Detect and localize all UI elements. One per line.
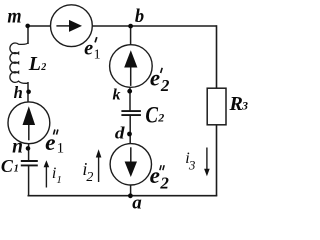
wire left: e''1 to C1: [28, 144, 30, 161]
node m: [25, 24, 30, 29]
svg-text:L: L: [28, 53, 41, 75]
svg-text:h: h: [14, 83, 23, 102]
source e'1: [51, 5, 93, 47]
source e''2: [110, 144, 151, 185]
svg-text:b: b: [135, 7, 144, 27]
svg-text:d: d: [115, 124, 125, 143]
svg-text:2: 2: [157, 111, 164, 125]
svg-text:R: R: [229, 93, 243, 115]
resistor R3: [207, 88, 226, 125]
wire left: m down to coil: [27, 25, 29, 44]
wire mid: C2 to e''2: [129, 116, 131, 145]
svg-text:m: m: [7, 4, 21, 28]
svg-text:a: a: [132, 193, 142, 212]
node k: [127, 89, 132, 94]
node d: [127, 132, 132, 137]
wire mid: b down to e'2: [130, 26, 132, 45]
svg-text:k: k: [113, 86, 121, 103]
wire left: C1 to bottom: [28, 166, 30, 196]
svg-text:2: 2: [160, 76, 170, 95]
svg-text:1: 1: [56, 174, 62, 186]
wire mid: e'2 to C2: [129, 87, 131, 110]
svg-text:2: 2: [159, 173, 169, 192]
current i2 arrow: [98, 157, 100, 183]
svg-text:3: 3: [241, 99, 248, 113]
wire bottom: [28, 195, 218, 197]
capacitor C2: [121, 110, 140, 112]
svg-text:n: n: [12, 136, 23, 157]
svg-text:e: e: [150, 66, 160, 91]
wire mid: e''2 to a: [130, 185, 132, 196]
wire left: coil to e''1: [27, 82, 29, 103]
svg-text:e: e: [150, 163, 160, 188]
current i3 arrow: [206, 148, 208, 170]
node n: [26, 146, 31, 151]
source e''1: [8, 102, 50, 144]
svg-text:2: 2: [86, 170, 93, 185]
source e'2: [110, 45, 153, 88]
svg-text:1: 1: [14, 164, 19, 175]
svg-text:C: C: [1, 156, 14, 176]
svg-text:1: 1: [57, 141, 65, 157]
svg-text:C: C: [145, 102, 158, 127]
svg-text:2: 2: [40, 62, 46, 73]
wire top from m to corner: [28, 25, 217, 27]
current i1 arrow: [45, 166, 47, 188]
node h: [26, 90, 31, 95]
node b: [128, 24, 133, 29]
capacitor C1: [21, 160, 38, 162]
svg-text:1: 1: [94, 48, 101, 63]
wire right upper: [216, 25, 218, 88]
svg-text:e: e: [84, 38, 93, 60]
svg-text:3: 3: [188, 158, 196, 173]
node a: [128, 193, 133, 198]
wire right lower: [216, 125, 218, 196]
inductor L2: [10, 43, 28, 84]
